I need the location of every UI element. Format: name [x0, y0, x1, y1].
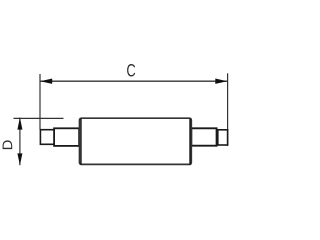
extension line C right	[227, 73, 229, 146]
label C	[127, 64, 135, 77]
arrowhead D up	[17, 117, 22, 129]
arrowhead C right	[215, 79, 227, 84]
right cap seam	[189, 118, 191, 164]
dimension line C	[41, 80, 228, 82]
left cap seam	[80, 118, 82, 164]
lamp body	[80, 118, 192, 164]
right pin tip	[218, 130, 228, 145]
label D	[3, 140, 13, 149]
left pin ceramic	[54, 128, 79, 146]
dimension line D	[19, 118, 21, 166]
extension line D top	[14, 117, 64, 119]
right pin ceramic	[191, 128, 216, 145]
extension line C left	[39, 74, 41, 130]
arrowhead D down	[17, 153, 22, 165]
left pin tip	[40, 130, 54, 145]
arrowhead C left	[40, 79, 52, 84]
